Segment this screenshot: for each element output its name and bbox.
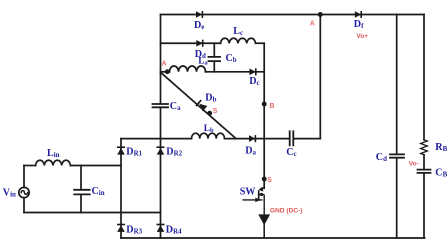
- wire Lin to bridge: [70, 165, 121, 167]
- capacitor Cd: [390, 154, 404, 157]
- diode Da: [249, 135, 255, 142]
- wire diagonal A to rail: [161, 72, 237, 138]
- wire Cd branch lower: [396, 158, 398, 238]
- svg-text:Cb: Cb: [226, 53, 237, 64]
- transistor SW source dot: [260, 193, 263, 196]
- svg-text:Df: Df: [354, 19, 364, 30]
- capacitor CB: [418, 170, 431, 173]
- svg-text:DR1: DR1: [126, 146, 142, 157]
- svg-text:DR2: DR2: [166, 146, 182, 157]
- node S diagonal junction dot: [207, 111, 212, 116]
- node A left junction dot: [165, 69, 170, 74]
- transistor SW drain arrowhead: [259, 187, 264, 192]
- diode DR1: [117, 147, 125, 154]
- diode DR3: [117, 225, 125, 232]
- wire Dd/Lc row y=43.25 left: [161, 42, 221, 44]
- wire bridge left leg x=121: [120, 139, 122, 238]
- wire AC top y=165.5: [24, 165, 36, 167]
- wire main rail y=138.6 left: [121, 138, 192, 140]
- svg-text:Dc: Dc: [249, 76, 259, 87]
- svg-text:Lb: Lb: [204, 124, 214, 134]
- wire rail Lb to Cc: [225, 138, 290, 140]
- wire right vertical x=320.3 (net A): [319, 15, 321, 139]
- svg-text:Da: Da: [245, 145, 256, 156]
- diode DR4: [157, 225, 165, 232]
- wire node-A row y=71.8: [161, 71, 170, 73]
- svg-text:Lin: Lin: [47, 148, 60, 159]
- svg-text:Cin: Cin: [92, 186, 105, 197]
- svg-text:Vo-: Vo-: [409, 161, 419, 168]
- svg-text:La: La: [198, 56, 208, 66]
- diode Dd: [196, 40, 202, 47]
- svg-text:Ca: Ca: [170, 101, 181, 112]
- wire mid vertical x=264.2: [263, 43, 265, 188]
- source Vin sine: [21, 191, 27, 195]
- wire Cc to right corner: [294, 138, 320, 140]
- wire Vin top lead: [23, 166, 25, 188]
- wire Lc to corner: [256, 42, 265, 44]
- diode DR2: [157, 147, 165, 154]
- capacitor Cin: [74, 190, 90, 195]
- svg-text:De: De: [194, 20, 204, 31]
- diode De: [196, 11, 202, 18]
- svg-text:Cc: Cc: [286, 147, 296, 158]
- source Vin circle: [19, 187, 29, 197]
- svg-text:S: S: [267, 177, 272, 184]
- svg-text:CB: CB: [435, 168, 447, 179]
- svg-text:GND (DC-): GND (DC-): [270, 207, 303, 214]
- wire Cin top lead: [80, 166, 82, 190]
- capacitor Ca: [153, 104, 169, 107]
- svg-text:DR4: DR4: [166, 224, 182, 235]
- svg-text:B: B: [270, 103, 275, 110]
- node A top junction dot: [318, 12, 323, 17]
- wire RB to CB: [423, 155, 425, 169]
- inductor Lb: [192, 133, 225, 138]
- svg-text:S: S: [213, 108, 218, 115]
- capacitor Cb: [209, 57, 221, 61]
- svg-text:Cd: Cd: [376, 152, 387, 163]
- svg-text:A: A: [162, 61, 167, 68]
- wire Cb bottom lead: [213, 62, 215, 72]
- ground arrow stem: [263, 216, 265, 238]
- resistor RB: [421, 140, 428, 155]
- inductor Lin: [36, 160, 71, 165]
- wire output branch x=424 upper: [423, 15, 425, 140]
- svg-text:A: A: [310, 20, 315, 27]
- wire left vertical x=160.5 lower (below C_a): [160, 108, 162, 238]
- svg-text:Vo+: Vo+: [356, 33, 368, 40]
- wire Cin bottom lead: [80, 195, 82, 213]
- transistor SW gate arrowhead: [255, 198, 260, 203]
- diode Db (on diagonal, pointing up-left toward A): [196, 100, 207, 111]
- wire left vertical x=160.5 upper (above C_a): [160, 15, 162, 104]
- wire CB to bottom rail: [423, 173, 425, 238]
- svg-text:Db: Db: [205, 92, 216, 103]
- capacitor Cc: [290, 131, 294, 145]
- diode Df: [355, 11, 361, 18]
- wire top rail y=14.5: [161, 14, 425, 16]
- transistor SW (MOSFET): [243, 188, 265, 216]
- wire AC bottom y=212.5: [24, 212, 161, 214]
- wire La to mid vertical: [206, 71, 265, 73]
- wire Cb top lead: [213, 43, 215, 56]
- wire Vin bottom lead: [23, 198, 25, 213]
- node S switch junction dot: [262, 177, 267, 182]
- svg-text:Vin: Vin: [3, 187, 16, 198]
- svg-text:Lc: Lc: [233, 26, 243, 37]
- svg-text:DR3: DR3: [126, 224, 142, 235]
- wire Cd branch x=396.7 upper: [396, 15, 398, 154]
- diode Dc: [249, 68, 255, 75]
- svg-text:RB: RB: [435, 142, 447, 153]
- svg-text:SW: SW: [240, 186, 256, 197]
- wire bottom rail y=236.5: [121, 237, 425, 239]
- inductor La: [170, 66, 206, 72]
- node B junction dot: [262, 102, 267, 107]
- inductor Lc: [221, 38, 256, 43]
- ground arrow head: [258, 214, 270, 225]
